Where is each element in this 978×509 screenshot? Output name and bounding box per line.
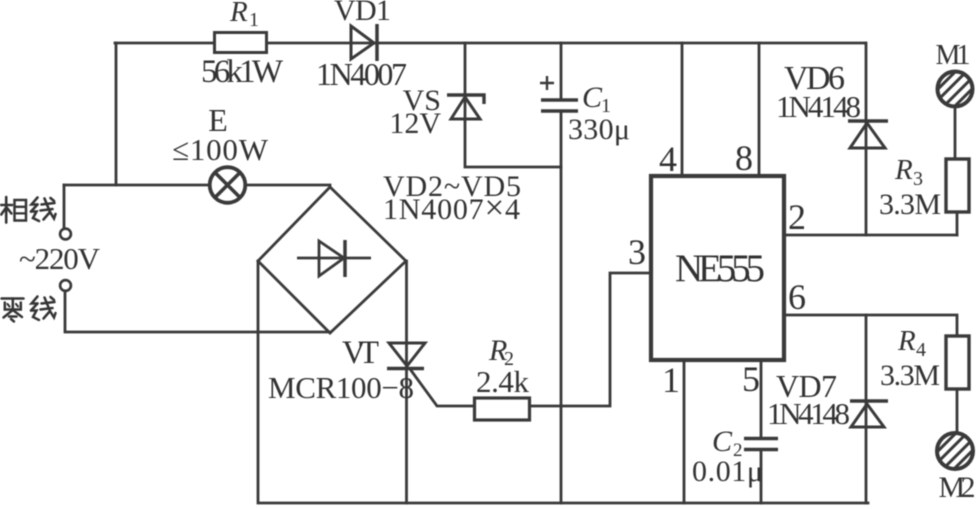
svg-text:VT: VT bbox=[342, 335, 379, 371]
svg-text:C: C bbox=[712, 425, 733, 458]
svg-text:1N4007: 1N4007 bbox=[316, 56, 407, 92]
svg-text:1N4007×4: 1N4007×4 bbox=[383, 188, 520, 227]
svg-text:1: 1 bbox=[249, 9, 259, 31]
svg-text:≤100W: ≤100W bbox=[172, 132, 269, 167]
svg-text:1N4148: 1N4148 bbox=[767, 396, 850, 431]
svg-text:M1: M1 bbox=[936, 40, 971, 71]
svg-text:3.3M: 3.3M bbox=[879, 188, 941, 221]
svg-text:1N4148: 1N4148 bbox=[776, 89, 861, 124]
svg-text:4: 4 bbox=[916, 339, 926, 361]
svg-text:R: R bbox=[229, 0, 248, 28]
svg-text:3: 3 bbox=[628, 232, 646, 272]
svg-text:1: 1 bbox=[662, 360, 680, 400]
svg-text:12V: 12V bbox=[389, 107, 441, 140]
svg-text:330μ: 330μ bbox=[568, 113, 630, 146]
svg-text:R: R bbox=[897, 325, 916, 357]
svg-text:6: 6 bbox=[788, 277, 806, 317]
svg-text:8: 8 bbox=[735, 138, 753, 178]
svg-text:R: R bbox=[894, 154, 913, 186]
svg-text:0.01μ: 0.01μ bbox=[692, 455, 763, 488]
svg-text:MCR100−8: MCR100−8 bbox=[268, 370, 414, 405]
svg-text:2.4k: 2.4k bbox=[476, 364, 530, 399]
svg-text:C: C bbox=[582, 81, 603, 114]
svg-text:M2: M2 bbox=[939, 471, 976, 504]
svg-text:5: 5 bbox=[742, 359, 760, 399]
svg-text:3.3M: 3.3M bbox=[880, 359, 940, 392]
svg-text:3: 3 bbox=[913, 168, 923, 190]
svg-text:2: 2 bbox=[788, 197, 806, 237]
svg-text:56k1W: 56k1W bbox=[201, 54, 284, 90]
svg-text:4: 4 bbox=[659, 139, 677, 179]
svg-text:VD1: VD1 bbox=[334, 0, 391, 27]
svg-text:NE555: NE555 bbox=[675, 247, 765, 290]
svg-text:~220V: ~220V bbox=[19, 241, 101, 276]
